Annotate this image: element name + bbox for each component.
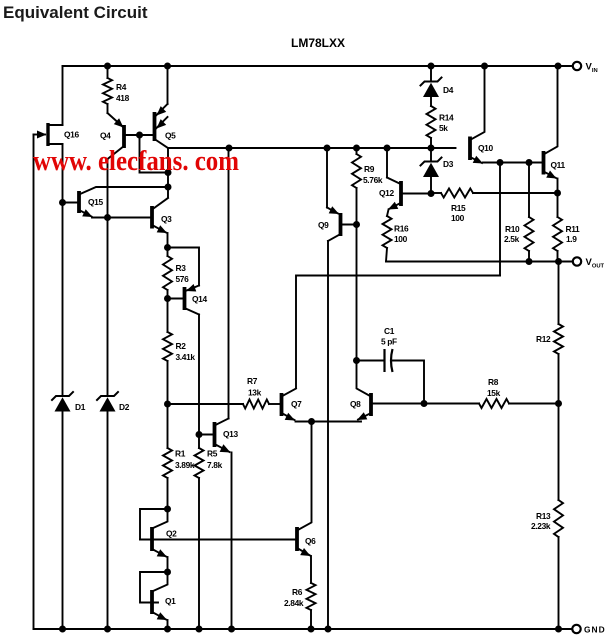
label R3 value [176,274,190,284]
transistor Q1 [140,572,168,620]
resistor R12 [554,324,563,354]
label R6 value [284,598,304,608]
wire R16 to VOUT rail [386,248,387,262]
wire D4-R14 [430,97,432,107]
label Q3 [161,214,172,224]
svg-text:Q9: Q9 [318,220,329,230]
wire Q8 base line [371,403,479,405]
label R16 [394,224,409,234]
wire C1 left lead [357,360,384,362]
wire Q16 gate to ground rail left edge [34,135,63,630]
transistor Q13 [199,419,231,453]
resistor R2 [163,332,172,361]
node R2 bottom 404 line [164,401,171,408]
label Q7 [291,399,302,409]
label C1 value [381,337,397,347]
svg-text:www. elecfans. com: www. elecfans. com [33,145,239,177]
transistor Q9 [327,206,357,241]
wire R3 bottom lead [167,290,169,299]
svg-text:R10: R10 [505,224,520,234]
label Q2 [166,529,177,539]
svg-text:Q1: Q1 [165,596,176,606]
wire R15 right lead [473,192,558,194]
svg-text:R5: R5 [207,449,218,459]
label R11 value [566,234,577,244]
svg-text:Q8: Q8 [350,399,361,409]
label R5 [207,449,218,459]
label R2 [176,341,187,351]
resistor R6 [307,583,316,610]
node C1 branch [353,357,360,364]
label R7 [247,376,258,386]
wire R10 bottom lead [528,251,530,262]
label Q13 [223,429,238,439]
label Q16 [64,130,79,140]
wire left rail drop to Q16 drain [62,66,64,125]
wire D2 to ground [107,411,109,629]
node emitter bus x529 [526,159,533,166]
label R10 value [504,234,520,244]
wire Q13 collector up to 148 bus [228,148,230,419]
node ground at Q13 emitter [228,626,235,633]
wire R9 bottom lead [356,188,358,225]
wire 404 line left [168,403,244,405]
label R15 value [451,213,465,223]
label R9 [364,164,375,174]
svg-text:Q11: Q11 [551,160,566,170]
svg-text:Q10: Q10 [478,143,493,153]
wire Q9 emitter from 148 bus [326,148,328,208]
svg-text:5 pF: 5 pF [381,337,397,347]
node ground at Q1 [164,626,171,633]
svg-text:R13: R13 [536,511,551,521]
node Q6 collector junction [308,418,315,425]
svg-text:C1: C1 [384,326,395,336]
svg-text:R7: R7 [247,376,258,386]
svg-text:Q5: Q5 [165,131,176,141]
svg-text:Q2: Q2 [166,529,177,539]
svg-text:R15: R15 [451,203,466,213]
transistor Q8 [357,361,372,421]
svg-text:R9: R9 [364,164,375,174]
svg-text:R6: R6 [292,587,303,597]
node Q2 collector [164,506,171,513]
wire Q2 emitter down [167,557,169,572]
wire R9 column down to Q8 collector node [356,225,358,361]
label D1 [75,402,86,412]
resistor R15 [441,189,473,198]
wire emitter bus Q7-Q8 [296,421,362,423]
wire Q2 base bus to Q6 [140,539,295,541]
wire R15 left lead [431,192,441,194]
transistor Q7 [282,389,297,421]
label R14 value [439,123,448,133]
transistor Q6 [297,422,312,557]
label VIN [586,62,598,75]
wire R12 bottom lead [558,354,560,404]
label Q11 [551,160,566,170]
label D4 [443,85,454,95]
wire R5 bottom lead [198,478,200,629]
resistor R9 [352,154,361,188]
node Q13 base junction [196,431,203,438]
terminal VOUT [573,257,581,265]
wire R13 bottom lead [558,537,560,629]
svg-text:1.9: 1.9 [566,234,577,244]
wire C1 right lead [392,361,424,404]
svg-text:R1: R1 [175,449,186,459]
wire R9 top lead [356,148,358,154]
label Q9 [318,220,329,230]
wire Q4-Q5 base down to collector node [140,135,169,173]
svg-text:418: 418 [116,93,130,103]
wire R13 top lead [558,404,560,501]
label R8 value [487,388,501,398]
wire R1 top lead [167,404,169,448]
terminal VIN [573,62,581,70]
wire R1 bottom lead [167,478,169,509]
svg-text:R11: R11 [566,224,581,234]
svg-text:Q4: Q4 [100,131,111,141]
transistor Q10 [470,66,485,164]
node VOUT rail R11 R12 [555,258,562,265]
svg-text:R2: R2 [176,341,187,351]
label C1 [384,326,395,336]
resistor R10 [525,217,534,251]
svg-text:R12: R12 [536,334,551,344]
label R7 value [248,388,262,398]
svg-text:2.23k: 2.23k [531,521,551,531]
node Q15 collector tie [165,184,172,191]
node 148 bus at Q9 emitter [324,145,331,152]
node VOUT rail R10 [526,258,533,265]
node 148 bus at Q13 branch [226,145,233,152]
zener diode D2 [97,392,118,412]
transistor Q2 [140,509,168,557]
wire D1 to ground [62,411,64,629]
zener diode D1 [52,392,73,412]
wire R8 right lead [509,403,559,405]
node 148 bus at R9 [353,145,360,152]
capacitor C1 [385,349,393,372]
label R1 [175,449,186,459]
node ground at D1 [59,626,66,633]
node 148 bus at Q12 collector [384,145,391,152]
label VOUT [586,257,605,270]
label R1 value [175,460,195,470]
label R15 [451,203,466,213]
svg-text:D3: D3 [443,159,454,169]
label D3 [443,159,454,169]
wire V_IN top rail [63,65,573,67]
svg-text:R8: R8 [488,377,499,387]
node top rail at Q10 collector [481,63,488,70]
node Q15 emitter junction [104,214,111,221]
wire Q4 collector column [107,159,109,395]
wire R14 bottom lead [430,138,432,148]
svg-text:2.5k: 2.5k [504,234,520,244]
svg-text:R14: R14 [439,113,454,123]
label R12 [536,334,551,344]
wire Q5 collector node column [167,148,169,198]
wire Q6 emitter to R6 [310,556,312,583]
label Q1 [165,596,176,606]
node ground at D2 [104,626,111,633]
wire Q7 collector loop [296,276,500,388]
resistor R3 [163,256,172,290]
wire Q12 emitter to R16 [387,210,389,217]
resistor R13 [554,500,563,537]
transistor Q11 [544,66,558,179]
transistor Q16 [34,123,63,146]
svg-text:2.84k: 2.84k [284,598,304,608]
wire R12 top lead [558,262,560,325]
svg-text:13k: 13k [248,388,262,398]
svg-text:D2: D2 [119,402,130,412]
node ground at R5 [196,626,203,633]
node C1 right junction [421,400,428,407]
wire R10 top lead [528,163,530,218]
label R4 [116,82,127,92]
node ground at R13 [555,626,562,633]
svg-text:R16: R16 [394,224,409,234]
wire Q9 collector down to ground [327,241,329,629]
svg-text:D1: D1 [75,402,86,412]
wire 148 bus [168,147,456,149]
node Q15 base junction [59,199,66,206]
svg-text:Equivalent Circuit: Equivalent Circuit [3,3,148,22]
label Q4 [100,131,111,141]
wire Q11 emitter down [557,179,559,194]
node top rail at Q5 [164,63,171,70]
node R8 R12 R13 [555,400,562,407]
svg-text:Q12: Q12 [379,188,394,198]
wire Q5 emitter feed [167,66,169,104]
label Q15 [88,197,103,207]
label Q10 [478,143,493,153]
svg-text:GND: GND [584,625,606,635]
wire R2 bottom lead [167,361,169,404]
resistor R16 [383,216,392,248]
zener diode D3 [421,158,442,178]
svg-text:Q14: Q14 [192,294,207,304]
svg-text:Q7: Q7 [291,399,302,409]
wire Q14 collector column [198,315,200,449]
resistor R8 [479,399,509,408]
svg-text:3.89k: 3.89k [175,460,195,470]
label D2 [119,402,130,412]
svg-text:R3: R3 [176,263,187,273]
resistor R1 [163,448,172,478]
node emitter bus x500 [497,159,504,166]
label R16 value [394,234,408,244]
svg-text:576: 576 [176,274,190,284]
wire R6 bottom lead [310,610,312,629]
wire Q3 emitter down [167,233,169,248]
label R4 value [116,93,130,103]
wire VOUT rail [386,261,573,263]
wire R11 bottom lead [557,251,559,262]
wire D3 bottom lead [430,177,432,194]
node top rail at Q11 collector [555,63,562,70]
svg-text:Q16: Q16 [64,130,79,140]
transistor Q3 [152,198,168,233]
wire Q13 emitter down to ground [231,453,233,630]
svg-text:3.41k: 3.41k [176,352,196,362]
wire R4 bottom lead [107,104,109,113]
label R10 [505,224,520,234]
label R11 [566,224,581,234]
label R6 [292,587,303,597]
transistor Q4 [108,113,155,159]
label Q14 [192,294,207,304]
svg-text:Q6: Q6 [305,536,316,546]
resistor R11 [553,217,562,251]
resistor R5 [195,448,204,478]
node ground at R6 [308,626,315,633]
label R9 value [363,175,383,185]
resistor R7 [243,400,269,409]
label Q5 [165,131,176,141]
wire 500 column [499,163,501,276]
label Q8 [350,399,361,409]
node R3 top [164,244,171,251]
wire Q1 emitter down [167,620,169,629]
wire R4 top lead [107,66,109,78]
svg-text:100: 100 [451,213,465,223]
label R8 [488,377,499,387]
svg-text:5k: 5k [439,123,448,133]
node Q9 base R9 [353,221,360,228]
node top rail at D4 [428,63,435,70]
wire R11 top lead [557,193,559,217]
node ground at Q9 collector [325,626,332,633]
label Q6 [305,536,316,546]
node Q4 Q5 base tie [136,132,143,139]
node top rail at R4 [104,63,111,70]
svg-text:Q15: Q15 [88,197,103,207]
node base tie [165,169,172,176]
label R13 [536,511,551,521]
svg-text:D4: D4 [443,85,454,95]
node Q11 emitter junction [554,190,561,197]
transistor Q15 [63,187,169,218]
label R5 value [207,460,223,470]
terminal GND [572,625,580,633]
node D3 R15 Q12 base [428,190,435,197]
svg-text:Q3: Q3 [161,214,172,224]
svg-text:LM78LXX: LM78LXX [291,36,345,50]
label R2 value [176,352,196,362]
wire Q12 collector from 148 bus [386,148,388,178]
label R3 [176,263,187,273]
label GND [584,625,606,635]
label R14 [439,113,454,123]
svg-text:5.76k: 5.76k [363,175,383,185]
resistor R14 [427,106,436,138]
transistor Q12 [387,178,431,210]
svg-text:Q13: Q13 [223,429,238,439]
transistor Q5 [155,104,169,148]
node 148 bus at D4 chain [428,145,435,152]
svg-text:7.8k: 7.8k [207,460,223,470]
wire R2 top lead [167,299,169,333]
wire D4 top lead [430,66,432,81]
label Q12 [379,188,394,198]
node Q1 collector [164,569,171,576]
wire 404 line right [269,403,282,405]
node R3 bottom [164,295,171,302]
svg-text:15k: 15k [487,388,501,398]
wire Q10 emitter bus [483,162,544,164]
svg-text:100: 100 [394,234,408,244]
label R13 value [531,521,551,531]
transistor Q14 [168,284,200,315]
wire R3 top to Q14 emitter branch [168,248,200,286]
wire ground rail [34,628,573,630]
resistor R4 [103,78,112,104]
svg-text:R4: R4 [116,82,127,92]
wire R3 lead [167,248,169,257]
wire Q16 source column [62,144,64,395]
zener diode D4 [421,78,442,98]
wire D3 top lead [430,148,432,161]
